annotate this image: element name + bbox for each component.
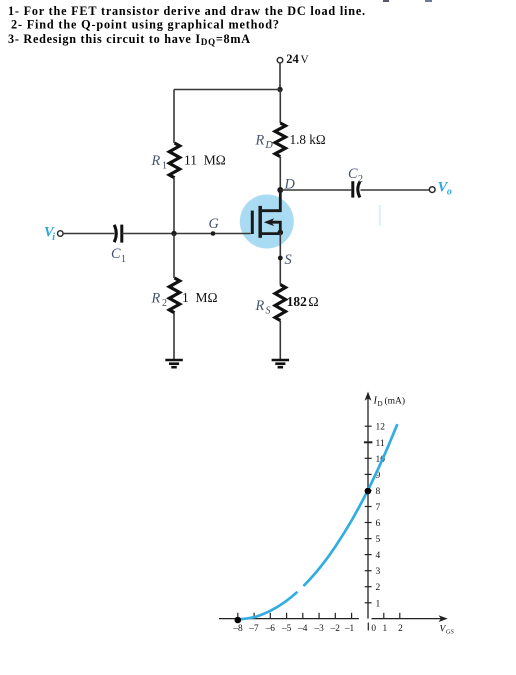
x labels bbox=[232, 624, 403, 634]
svg-text:S: S bbox=[285, 252, 292, 268]
node junction top rail bbox=[277, 87, 282, 92]
svg-text:(mA): (mA) bbox=[385, 396, 406, 407]
svg-text:R: R bbox=[255, 133, 265, 149]
svg-text:S: S bbox=[266, 305, 271, 316]
source stub bbox=[262, 232, 280, 235]
svg-text:1- For the FET transistor deri: 1- For the FET transistor derive and dra… bbox=[8, 4, 366, 18]
svg-text:R: R bbox=[151, 290, 161, 306]
svg-text:24: 24 bbox=[286, 52, 299, 66]
y-axis below-origin tick bbox=[367, 623, 369, 631]
svg-text:–1: –1 bbox=[344, 624, 355, 634]
svg-text:1.8 kΩ: 1.8 kΩ bbox=[290, 132, 326, 147]
svg-text:2- Find the Q-point using grap: 2- Find the Q-point using graphical meth… bbox=[11, 17, 280, 31]
input terminal Vi bbox=[58, 231, 64, 237]
svg-text:–5: –5 bbox=[281, 624, 292, 634]
svg-text:3- Redesign this circuit to ha: 3- Redesign this circuit to have IDQ=8mA bbox=[8, 32, 251, 47]
ground (right) bbox=[272, 359, 290, 362]
svg-text:V: V bbox=[301, 54, 310, 66]
cropped text remnant top edge bbox=[383, 0, 389, 2]
capacitor C2 bbox=[351, 181, 354, 197]
svg-text:2: 2 bbox=[358, 174, 363, 185]
wire left branch down to R1 bbox=[173, 90, 175, 144]
wire top rail horizontal bbox=[174, 89, 280, 91]
svg-text:12: 12 bbox=[376, 423, 386, 433]
svg-text:6: 6 bbox=[376, 519, 381, 529]
wire source down through S bbox=[279, 233, 281, 285]
svg-text:1: 1 bbox=[121, 254, 126, 265]
svg-text:–3: –3 bbox=[313, 624, 324, 634]
wire gate junction down to R2 bbox=[173, 234, 175, 279]
svg-text:8: 8 bbox=[376, 487, 381, 497]
arrowhead bbox=[264, 218, 274, 226]
svg-text:Ω: Ω bbox=[308, 295, 318, 310]
svg-text:2: 2 bbox=[376, 583, 381, 593]
node D bbox=[277, 187, 283, 193]
svg-text:0: 0 bbox=[371, 624, 376, 634]
point Q (0,8) bbox=[365, 488, 372, 495]
transfer curve (Shockley) bbox=[238, 424, 398, 619]
svg-text:2: 2 bbox=[162, 298, 167, 309]
node G bbox=[211, 231, 216, 236]
resistor RS bbox=[275, 285, 285, 321]
svg-text:7: 7 bbox=[376, 503, 381, 513]
svg-text:GS: GS bbox=[446, 629, 455, 636]
svg-text:1: 1 bbox=[162, 160, 167, 171]
wire RD bottom to node D bbox=[279, 157, 281, 190]
svg-text:3: 3 bbox=[376, 567, 381, 577]
svg-text:–4: –4 bbox=[297, 624, 308, 634]
svg-text:D: D bbox=[378, 400, 383, 408]
svg-text:G: G bbox=[209, 216, 220, 232]
svg-text:1: 1 bbox=[382, 624, 387, 634]
svg-text:i: i bbox=[52, 232, 55, 243]
y-axis bbox=[367, 396, 369, 619]
svg-text:–8: –8 bbox=[232, 624, 243, 634]
y ticks and labels bbox=[364, 426, 373, 603]
wire top rail down to RD bbox=[279, 90, 281, 124]
resistor R2 bbox=[169, 278, 179, 313]
svg-text:o: o bbox=[447, 186, 452, 197]
wire supply down to rail junction bbox=[279, 63, 281, 90]
output terminal Vo bbox=[429, 187, 435, 193]
x ticks bbox=[238, 613, 400, 619]
wire C2 to Vo bbox=[361, 189, 430, 191]
svg-text:–6: –6 bbox=[265, 624, 276, 634]
svg-text:C: C bbox=[111, 246, 121, 262]
wire R1 bottom to gate junction bbox=[173, 178, 175, 234]
resistor R1 bbox=[169, 143, 179, 178]
MOSFET highlight circle bbox=[240, 195, 294, 249]
svg-text:2: 2 bbox=[398, 624, 403, 634]
resistor RD bbox=[275, 123, 285, 157]
wire Vi to C1 bbox=[63, 233, 114, 235]
svg-text:D: D bbox=[265, 140, 274, 151]
ground (left) bbox=[165, 359, 183, 362]
svg-text:C: C bbox=[348, 166, 358, 182]
gate bar bbox=[251, 211, 254, 234]
supply terminal 24V bbox=[277, 57, 283, 63]
svg-text:11 MΩ: 11 MΩ bbox=[184, 152, 226, 167]
node source junction bbox=[278, 230, 284, 236]
svg-text:1: 1 bbox=[376, 599, 381, 609]
svg-text:R: R bbox=[255, 298, 265, 314]
svg-text:182: 182 bbox=[287, 294, 307, 309]
wire drain lead bbox=[262, 190, 280, 211]
svg-text:–2: –2 bbox=[330, 624, 341, 634]
substrate stub with arrow bbox=[271, 222, 280, 233]
wire node D to C2 bbox=[280, 189, 351, 191]
svg-text:5: 5 bbox=[376, 535, 381, 545]
wire RS to ground bbox=[279, 321, 281, 360]
capacitor C1 bbox=[114, 225, 116, 242]
svg-text:–7: –7 bbox=[248, 624, 259, 634]
point VP (-8,0) bbox=[235, 617, 242, 624]
wire R2 to ground bbox=[173, 313, 175, 360]
wire C1 to gate bbox=[122, 233, 251, 235]
node junction gate-left bbox=[171, 231, 176, 236]
svg-text:R: R bbox=[151, 153, 161, 169]
scan artifact faint mark bbox=[379, 205, 381, 226]
svg-text:11: 11 bbox=[376, 439, 385, 449]
x-axis (left segment) bbox=[219, 618, 359, 620]
node S bbox=[278, 256, 283, 261]
svg-text:4: 4 bbox=[376, 551, 381, 561]
svg-text:1 MΩ: 1 MΩ bbox=[182, 290, 218, 305]
channel bar bbox=[258, 206, 262, 238]
curve break (scan gap) bbox=[295, 583, 310, 598]
x-axis (right segment with arrow) bbox=[372, 618, 445, 620]
